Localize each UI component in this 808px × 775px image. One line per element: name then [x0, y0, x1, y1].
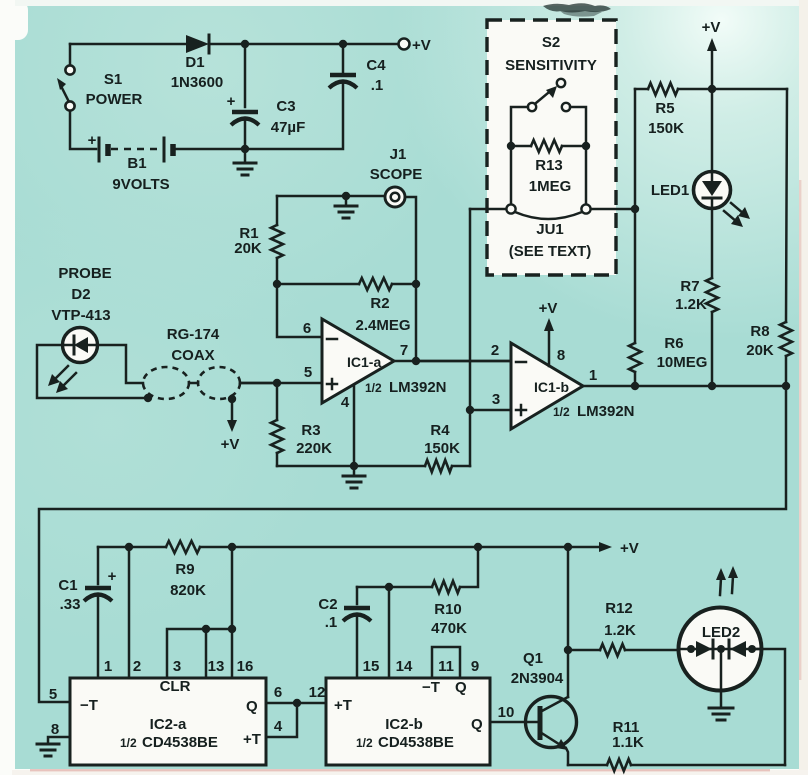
wire pin 16 riser — [231, 547, 234, 678]
svg-text:−T: −T — [80, 697, 98, 714]
sensitivity box S2/JU1 — [487, 20, 616, 275]
wire D1 to +V terminal — [209, 43, 399, 46]
svg-text:1/2: 1/2 — [120, 736, 137, 750]
capacitor C4 — [329, 44, 386, 94]
wire C2/R10 link — [357, 586, 432, 589]
node scope ground tap — [342, 192, 350, 200]
svg-text:C2: C2 — [318, 596, 337, 613]
svg-text:20K: 20K — [234, 240, 262, 257]
svg-text:+V: +V — [221, 436, 240, 453]
svg-text:PROBE: PROBE — [58, 265, 111, 282]
node rail collector — [564, 543, 572, 551]
node rail R10 — [474, 543, 482, 551]
svg-text:(SEE TEXT): (SEE TEXT) — [509, 243, 592, 260]
resistor R4 — [424, 422, 470, 472]
node pin4 ground — [350, 462, 358, 470]
wire Q out pin 6 — [266, 684, 326, 703]
node pin6/4 — [293, 699, 301, 707]
op-amp U IC1-a — [322, 319, 394, 403]
svg-text:6: 6 — [274, 684, 282, 701]
svg-text:3: 3 — [492, 391, 500, 408]
jumper JU1 — [506, 146, 591, 260]
svg-text:R13: R13 — [535, 157, 563, 174]
wire pins 11-9 link — [432, 647, 460, 678]
node JU1 to column — [631, 205, 639, 213]
ground under C3 — [234, 149, 256, 175]
svg-text:Q: Q — [471, 716, 483, 733]
svg-text:LM392N: LM392N — [577, 403, 635, 420]
ground LED2 — [709, 708, 733, 720]
coax RG-174 — [143, 326, 277, 399]
svg-text:S2: S2 — [542, 34, 560, 51]
svg-text:15: 15 — [363, 658, 380, 675]
node R8 bottom — [782, 382, 790, 390]
svg-text:−T: −T — [422, 679, 440, 696]
svg-text:C3: C3 — [276, 98, 295, 115]
LED1 arrows — [724, 203, 750, 227]
wire C3 to C4 bottom — [245, 84, 343, 149]
wire JU1 right out — [591, 208, 635, 211]
wire pin 2 riser — [128, 547, 131, 678]
IC U IC2-b — [326, 678, 490, 765]
resistor R8 — [746, 89, 792, 386]
resistor R1 — [234, 196, 283, 284]
svg-text:R2: R2 — [370, 295, 389, 312]
svg-text:8: 8 — [51, 721, 59, 738]
svg-text:1/2: 1/2 — [553, 405, 570, 419]
svg-text:+T: +T — [243, 731, 261, 748]
svg-text:+V: +V — [412, 37, 431, 54]
wire probe anode loop — [37, 345, 146, 398]
wire pin 3 — [470, 391, 511, 410]
resistor R11 — [607, 719, 785, 771]
transistor Q1 — [511, 650, 577, 765]
svg-text:5: 5 — [49, 686, 57, 703]
node output to pin2 — [412, 357, 420, 365]
capacitor C1 — [58, 547, 116, 678]
resistor R7 — [675, 208, 718, 386]
node collector/R12 — [564, 646, 572, 654]
svg-text:RG-174: RG-174 — [167, 326, 220, 343]
svg-text:+: + — [108, 568, 117, 585]
svg-text:10: 10 — [498, 704, 515, 721]
photodiode D2 probe — [51, 265, 111, 363]
svg-text:R7: R7 — [680, 278, 699, 295]
node coax shield left — [144, 394, 152, 402]
node pin3 tap — [466, 406, 474, 414]
svg-text:1/2: 1/2 — [365, 381, 382, 395]
wire pin 7 output — [394, 342, 511, 361]
svg-text:+V: +V — [702, 19, 721, 36]
label 1/2 LM392N b — [553, 403, 635, 420]
svg-text:+: + — [88, 132, 97, 149]
svg-text:1.2K: 1.2K — [675, 296, 707, 313]
svg-text:R9: R9 — [175, 561, 194, 578]
wire R3 bottom to R4 — [277, 465, 425, 468]
node coax shield right — [228, 395, 236, 403]
svg-text:2: 2 — [491, 342, 499, 359]
svg-text:VTP-413: VTP-413 — [51, 307, 110, 324]
resistor R3 — [271, 383, 332, 466]
scope jack J1 — [277, 146, 422, 207]
wire probe cathode to coax — [98, 345, 143, 383]
svg-text:220K: 220K — [296, 440, 332, 457]
svg-text:150K: 150K — [424, 440, 460, 457]
ground under IC1-a — [343, 466, 365, 488]
IC U IC2-a — [70, 678, 266, 765]
wire S2 right leg — [570, 107, 586, 146]
svg-text:B1: B1 — [127, 155, 146, 172]
wire emitter to R11 — [568, 764, 607, 767]
svg-text:1: 1 — [104, 658, 112, 675]
svg-text:.33: .33 — [60, 596, 81, 613]
svg-text:5: 5 — [304, 364, 312, 381]
svg-text:8: 8 — [557, 347, 565, 364]
svg-text:+: + — [227, 93, 236, 110]
svg-text:LED1: LED1 — [651, 182, 689, 199]
node C3 bottom — [241, 145, 249, 153]
svg-text:D1: D1 — [185, 54, 204, 71]
pin numbers IC2-a — [104, 658, 254, 675]
svg-text:CD4538BE: CD4538BE — [142, 734, 218, 751]
svg-text:4: 4 — [341, 394, 350, 411]
resistor R5 — [648, 83, 787, 137]
svg-text:1.1K: 1.1K — [612, 734, 644, 751]
svg-text:+V: +V — [539, 300, 558, 317]
svg-text:16: 16 — [237, 658, 254, 675]
battery B1 — [88, 132, 245, 193]
svg-text:47µF: 47µF — [271, 119, 306, 136]
svg-text:.1: .1 — [325, 614, 338, 631]
LED2 arrows — [716, 566, 738, 595]
ground pin 8 — [37, 744, 59, 756]
svg-text:14: 14 — [396, 658, 413, 675]
wire pin 8 — [48, 721, 70, 742]
node pin13 link — [202, 625, 210, 633]
svg-text:+V: +V — [620, 540, 639, 557]
svg-text:4: 4 — [274, 718, 283, 735]
svg-text:9: 9 — [471, 658, 479, 675]
svg-text:C1: C1 — [58, 577, 77, 594]
svg-text:POWER: POWER — [86, 91, 143, 108]
svg-text:2.4MEG: 2.4MEG — [355, 317, 410, 334]
svg-text:R8: R8 — [750, 323, 769, 340]
op-amp U IC1-b — [511, 343, 583, 429]
wire output down to bottom section — [39, 386, 786, 702]
resistor R2 — [277, 278, 416, 334]
wire pin 1 output — [583, 367, 786, 386]
svg-text:SENSITIVITY: SENSITIVITY — [505, 57, 597, 74]
wire collector riser — [567, 650, 570, 697]
wire scope to feedback column — [405, 197, 416, 361]
LED2 — [679, 608, 762, 707]
wire LED2 right leg — [756, 649, 785, 765]
resistor R12 — [568, 600, 680, 656]
svg-text:2N3904: 2N3904 — [511, 670, 564, 687]
node pin5/R3 — [273, 379, 281, 387]
svg-text:CLR: CLR — [160, 678, 191, 695]
wire pin 10 — [490, 704, 540, 722]
svg-text:1MEG: 1MEG — [529, 178, 572, 195]
wire +V to collector node — [567, 547, 570, 650]
svg-text:20K: 20K — [746, 342, 774, 359]
probe light arrows — [48, 366, 76, 393]
switch S2 — [528, 79, 570, 111]
svg-text:S1: S1 — [104, 71, 122, 88]
svg-text:12: 12 — [309, 684, 326, 701]
+V arrow pin 8 — [539, 300, 566, 366]
svg-text:10MEG: 10MEG — [657, 354, 708, 371]
wire S2 left leg — [511, 107, 528, 146]
wire R5 rail — [635, 88, 648, 91]
wire +V top rail — [70, 43, 186, 46]
resistor R13 — [511, 140, 586, 195]
svg-text:R12: R12 — [605, 600, 633, 617]
svg-text:Q: Q — [246, 698, 258, 715]
wire timing rail — [98, 546, 166, 549]
svg-text:11: 11 — [438, 658, 454, 675]
svg-text:SCOPE: SCOPE — [370, 166, 423, 183]
diode D1 — [171, 35, 224, 91]
svg-text:IC2-b: IC2-b — [385, 716, 423, 733]
top edge smudge — [543, 3, 611, 12]
node R7 bottom — [708, 382, 716, 390]
svg-text:2: 2 — [133, 658, 141, 675]
svg-text:3: 3 — [173, 658, 181, 675]
wire pin 5 — [240, 364, 322, 383]
node pin16 link — [228, 625, 236, 633]
wire pin 2 — [416, 342, 511, 361]
capacitor C3 — [227, 44, 306, 149]
node R13 left — [507, 142, 515, 150]
svg-text:C4: C4 — [366, 57, 386, 74]
LED1 — [651, 89, 731, 209]
svg-text:R6: R6 — [664, 335, 683, 352]
svg-text:1N3600: 1N3600 — [171, 74, 224, 91]
node C3 top — [241, 40, 249, 48]
wire R5 left column — [634, 89, 637, 343]
node R13 right — [582, 142, 590, 150]
svg-text:1.2K: 1.2K — [604, 622, 636, 639]
wire pin 6 — [277, 284, 322, 337]
+V tap on coax shield — [221, 400, 240, 453]
+V terminal J — [399, 37, 431, 54]
resistor R6 — [629, 335, 707, 386]
node C4 top — [339, 40, 347, 48]
svg-text:COAX: COAX — [171, 347, 214, 364]
svg-text:9VOLTS: 9VOLTS — [112, 176, 169, 193]
pin numbers IC2-b — [363, 658, 480, 675]
wire JU1 left column — [469, 209, 472, 466]
node R1/R2 — [273, 280, 281, 288]
resistor R10 — [431, 547, 478, 637]
svg-text:J1: J1 — [390, 146, 407, 163]
svg-text:Q: Q — [455, 679, 467, 696]
svg-text:D2: D2 — [71, 286, 90, 303]
svg-text:JU1: JU1 — [536, 221, 564, 238]
wire JU1 left out — [470, 208, 506, 211]
ground at J1 — [335, 196, 357, 218]
node R6 bottom — [631, 382, 639, 390]
svg-text:820K: 820K — [170, 582, 206, 599]
svg-text:.1: .1 — [371, 77, 384, 94]
wire pins 3-13-16 link — [167, 629, 232, 678]
svg-text:R4: R4 — [430, 422, 450, 439]
wire pin 13 riser — [205, 629, 208, 678]
+V arrow top right — [702, 19, 721, 89]
svg-text:LED2: LED2 — [702, 624, 740, 641]
capacitor C2 — [318, 587, 371, 678]
svg-text:R10: R10 — [434, 601, 462, 618]
svg-text:6: 6 — [303, 320, 311, 337]
svg-text:+T: +T — [334, 697, 352, 714]
svg-text:R3: R3 — [301, 422, 320, 439]
svg-text:Q1: Q1 — [523, 650, 543, 667]
node pin14 — [385, 583, 393, 591]
svg-text:150K: 150K — [648, 120, 684, 137]
svg-text:1: 1 — [589, 367, 597, 384]
wire pin 14 riser — [388, 587, 391, 678]
wire pin 4 loop — [266, 703, 297, 737]
svg-text:13: 13 — [208, 658, 225, 675]
svg-text:IC2-a: IC2-a — [150, 716, 187, 733]
svg-text:LM392N: LM392N — [389, 379, 447, 396]
wire pin 4 stem — [341, 385, 354, 466]
svg-text:IC1-b: IC1-b — [534, 379, 569, 395]
svg-text:IC1-a: IC1-a — [347, 354, 381, 370]
svg-text:7: 7 — [400, 342, 408, 359]
resistor R9 — [166, 541, 600, 599]
node rail pin2 — [125, 543, 133, 551]
node +V rail — [708, 85, 716, 93]
label 1/2 LM392N — [365, 379, 447, 396]
+V arrow bottom rail — [599, 540, 639, 557]
svg-text:R5: R5 — [655, 100, 674, 117]
svg-text:1/2: 1/2 — [356, 736, 373, 750]
switch S1 — [57, 44, 142, 149]
svg-text:470K: 470K — [431, 620, 467, 637]
node rail pin16 — [228, 543, 236, 551]
svg-text:CD4538BE: CD4538BE — [378, 734, 454, 751]
node R2 right — [412, 280, 420, 288]
